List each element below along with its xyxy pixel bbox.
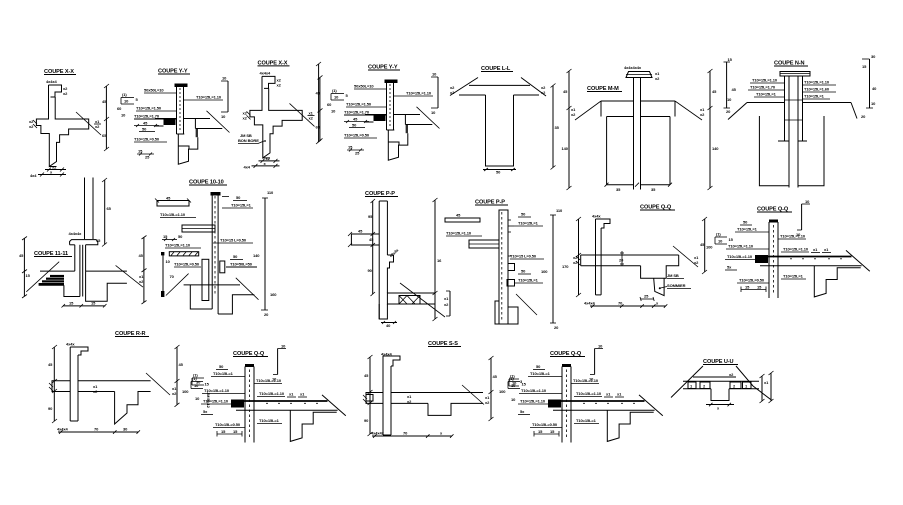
D2 left beam band: [155, 118, 177, 120]
D14 bottom bracket: [741, 289, 766, 291]
D13 leader diagonal: [673, 246, 698, 267]
D11 left slab: [351, 234, 379, 245]
D10 right vdim: [143, 237, 145, 302]
D6 body: [607, 116, 634, 118]
D15 slab: [78, 380, 151, 382]
section COUPE T-T (D18, copy): [499, 344, 663, 443]
svg-text:100: 100: [541, 269, 548, 274]
D6 cap: [626, 72, 652, 78]
D9 left vertical bracket: [162, 253, 164, 297]
D9 right tall dim: [264, 198, 266, 310]
D10 upper column: [84, 178, 86, 240]
D7 column stubs: [778, 140, 789, 142]
D13 thickness tick: [621, 251, 623, 266]
svg-text:T10=15L=1.10: T10=15L=1.10: [160, 212, 186, 217]
D6 right dim line: [709, 71, 711, 188]
D11 wall: [378, 201, 380, 319]
svg-text:T10=15L=1: T10=15L=1: [231, 203, 252, 208]
D17 left protrusion: [366, 393, 383, 404]
D9 leader diagonals: [166, 274, 189, 296]
D9 crossing beam: [182, 225, 215, 232]
D10 right foot: [86, 271, 127, 301]
D7 left bracket: [726, 62, 728, 108]
svg-text:T10=15L=1.10: T10=15L=1.10: [783, 247, 809, 252]
svg-text:T10=15L=0.50: T10=15L=0.50: [739, 278, 765, 283]
section COUPE K-K (D4, copy of D2): [327, 65, 440, 161]
section COUPE N-N (D7): [724, 54, 878, 188]
svg-text:T10=15L=1.10: T10=15L=1.10: [780, 234, 806, 239]
svg-text:T10=15L=1: T10=15L=1: [756, 92, 777, 97]
D9 left step: [190, 285, 212, 309]
D11 left vdim: [372, 201, 374, 294]
svg-text:4x4x4x: 4x4x4x: [371, 431, 385, 436]
D17 wall hook: [383, 356, 400, 366]
svg-text:50x50L=10: 50x50L=10: [144, 88, 164, 93]
D14 step: [814, 266, 860, 297]
D19 right bracket: [761, 376, 763, 401]
D1 tail bottom: [49, 166, 56, 168]
D7 right bracket: [869, 59, 871, 108]
section COUPE R-R (D15): [48, 331, 211, 434]
D6 bottom dim: [605, 183, 609, 187]
D10 leader diagonals: [26, 262, 59, 292]
D17 right vdim: [490, 358, 492, 419]
D7 cap: [780, 72, 810, 77]
svg-text:(1): (1): [716, 232, 721, 237]
section COUPE Y-Y (D2): [117, 69, 230, 165]
D13 step: [641, 255, 679, 278]
svg-text:T10=15L=1.60: T10=15L=1.60: [804, 87, 830, 92]
svg-text:T10=15L=1.10: T10=15L=1.10: [165, 243, 191, 248]
D5 flange underside: [459, 94, 486, 96]
D15 wall hook: [70, 347, 88, 355]
svg-text:T10=15 L=0.50: T10=15 L=0.50: [510, 254, 537, 259]
D13 left vdim: [578, 219, 580, 295]
D2 leader diagonal: [207, 111, 230, 133]
D9 column: [211, 192, 221, 196]
svg-text:110: 110: [556, 208, 563, 213]
svg-text:170: 170: [562, 264, 569, 269]
D12 leader diagonal: [516, 294, 537, 315]
D2 dim row E: [134, 125, 159, 127]
D12 right tall dim: [552, 215, 554, 323]
svg-text:4x4x4: 4x4x4: [46, 79, 57, 84]
D11 base: [387, 293, 435, 304]
svg-text:(1): (1): [122, 92, 127, 97]
section COUPE 10-10 (D9): [155, 180, 277, 318]
D9 right step: [218, 295, 254, 314]
D15 leader diagonal: [146, 373, 170, 395]
svg-text:(1): (1): [510, 374, 515, 379]
D19 boxes: [688, 382, 696, 389]
D10 left vdim: [23, 238, 25, 296]
svg-text:4x4x4: 4x4x4: [57, 427, 68, 432]
D12 notches: [508, 264, 515, 271]
D10 wall: [74, 245, 76, 271]
D10 bottom dim: [63, 305, 105, 307]
D9 top-right bracket: [222, 196, 229, 198]
D7 under-label lines: [747, 102, 785, 104]
section COUPE X-X (D1): [29, 69, 109, 178]
D19 trapezoid: [671, 366, 703, 398]
svg-text:T10=15L=1.10: T10=15L=1.10: [196, 95, 222, 100]
section COUPE Q-Q 2 (D14, reused for row3): [706, 199, 870, 298]
D2 foot outline: [178, 134, 198, 164]
D10 cap: [70, 240, 98, 245]
svg-text:T10=15 L=0.50: T10=15 L=0.50: [220, 238, 247, 243]
svg-text:T10=50L=50: T10=50L=50: [230, 262, 253, 267]
D11 leader diagonal: [400, 283, 445, 317]
D12 base: [495, 301, 518, 324]
D17 leader diagonal: [462, 385, 484, 405]
svg-text:4x4x: 4x4x: [592, 214, 601, 219]
section COUPE L-L (D5): [450, 66, 560, 175]
D15 right vdim: [176, 347, 178, 405]
D11 notch: [387, 255, 393, 293]
svg-text:T10=15L=1.10: T10=15L=1.10: [728, 244, 754, 249]
D9 right chair rect: [220, 261, 225, 273]
svg-text:T10=15L=1.10: T10=15L=1.10: [727, 254, 753, 259]
D15 wall: [69, 347, 71, 421]
D11 bottom left leg: [379, 304, 387, 319]
svg-text:4x4: 4x4: [30, 173, 37, 178]
svg-text:SOMMIER: SOMMIER: [667, 283, 686, 288]
D12 ticks on wall: [508, 219, 511, 221]
D15 slab notch: [115, 392, 151, 425]
D13 wall: [596, 219, 611, 228]
svg-text:100: 100: [706, 245, 713, 250]
D9 inner rebar rect: [202, 259, 209, 300]
svg-text:T10=15L=1.50: T10=15L=1.50: [136, 106, 162, 111]
svg-text:T10=15L=1.10: T10=15L=1.10: [752, 78, 778, 83]
svg-text:4x4x4x4x: 4x4x4x4x: [624, 65, 642, 70]
section COUPE U-U (D19): [671, 359, 774, 411]
svg-text:4x4x: 4x4x: [66, 342, 75, 347]
svg-text:T10=15L=1: T10=15L=1: [737, 227, 758, 232]
D14 column: [769, 220, 778, 223]
svg-text:140: 140: [562, 146, 569, 151]
D10 hatched slab: [50, 275, 64, 277]
section COUPE S-S (D17): [363, 341, 523, 438]
svg-text:4x4x4x: 4x4x4x: [69, 231, 83, 236]
svg-text:T10=15L=1.10: T10=15L=1.10: [804, 80, 830, 85]
D10 inner slot: [79, 245, 81, 297]
D9 left bar: [157, 201, 189, 207]
D19 band: [683, 380, 759, 382]
D17 left vdim: [369, 357, 371, 434]
section COUPE M-M (D6): [562, 65, 720, 192]
D17 wall: [382, 356, 384, 435]
D13 foot: [654, 278, 664, 295]
D10 upper right dim: [104, 180, 106, 245]
svg-text:T10=15L=1.70: T10=15L=1.70: [750, 85, 776, 90]
D5 top flange line: [469, 84, 530, 86]
svg-text:(1): (1): [193, 373, 198, 378]
D11 right vdim: [434, 200, 436, 319]
D17 slab: [391, 392, 483, 394]
D14 diagonal: [846, 250, 870, 271]
D6 left dim line: [568, 71, 570, 188]
D14 slab band: [759, 256, 852, 258]
svg-text:JM SB: JM SB: [667, 273, 679, 278]
section COUPE K-K (D3, copy of D1): [243, 60, 323, 169]
svg-text:BON BORE: BON BORE: [238, 138, 259, 143]
D12 top-left bar: [445, 218, 480, 222]
section COUPE S-S (D16, copy): [182, 344, 346, 443]
D11 bottom dim: [381, 322, 397, 324]
D9 flange cap: [169, 252, 198, 256]
svg-text:4x4x4: 4x4x4: [584, 301, 595, 306]
D1 leader diagonal: [76, 112, 101, 135]
D14 right bracket: [801, 204, 803, 230]
section COUPE P-P 2 (D12): [445, 200, 569, 331]
D5 left diagonal: [450, 78, 478, 96]
section COUPE P-P (D11): [348, 191, 450, 328]
D1 bottom dims: [45, 169, 66, 171]
D1 right dim line: [105, 86, 107, 149]
svg-text:JM BL12: JM BL12: [206, 392, 211, 409]
D2 top-right bracket: [227, 81, 229, 112]
D13 right vdim: [704, 219, 706, 272]
D1 wall+notch outline: [49, 85, 62, 97]
D12 wall: [499, 210, 508, 324]
D7 tub: [759, 116, 789, 186]
D19 right diagonal: [753, 386, 772, 401]
D6 column: [633, 78, 635, 190]
svg-text:T10=15L=0.50: T10=15L=0.50: [134, 137, 160, 142]
D17 slab notch: [428, 403, 483, 415]
D3 note JM SB BON BORE: [238, 133, 266, 144]
svg-text:T10=15L=1: T10=15L=1: [804, 94, 825, 99]
D19 stem: [711, 389, 729, 401]
D7 column: [784, 76, 786, 141]
D5 right dim line: [552, 85, 554, 167]
svg-text:T10=15L=0.50: T10=15L=0.50: [174, 262, 200, 267]
section COUPE 11-11 (D10): [19, 178, 147, 308]
D1 profile outline: [36, 85, 88, 167]
D13 slab top: [581, 254, 679, 256]
svg-text:T10=15L=1.10: T10=15L=1.10: [446, 231, 472, 236]
svg-text:110: 110: [267, 190, 274, 195]
D10 left foot: [64, 285, 80, 296]
D13 slab bottom: [581, 265, 641, 267]
D15 left vdim: [53, 347, 55, 421]
svg-text:160: 160: [270, 292, 277, 297]
D19 bottom dim: [706, 404, 734, 406]
D11 base hatch box: [399, 296, 420, 305]
svg-text:T10=15L=1: T10=15L=1: [783, 274, 804, 279]
D17 bottom dim: [372, 435, 452, 437]
D14 hatch box: [755, 255, 768, 263]
D15 left protrusion: [52, 381, 70, 392]
D2 column: [175, 84, 188, 88]
D6 shoulder diagonals: [575, 101, 601, 120]
D6 shoulder: [601, 100, 634, 102]
D5 right diagonal: [521, 78, 546, 97]
D15 bottom dim: [58, 431, 138, 433]
D5 stem: [486, 95, 514, 166]
D5 bottom dim: [483, 169, 516, 171]
D3 extra right dim line: [318, 64, 320, 142]
svg-text:T10=15L=1: T10=15L=1: [518, 221, 539, 226]
svg-text:140: 140: [712, 146, 719, 151]
D13 foot dim 25: [641, 298, 654, 300]
D11 right bracket: [449, 291, 451, 316]
D10 right slab top: [86, 270, 127, 272]
svg-text:T10=15L=1.70: T10=15L=1.70: [134, 114, 160, 119]
D10 left slab top: [40, 270, 75, 272]
section COUPE Q-Q (D13): [573, 205, 707, 308]
D7 diagonals: [728, 103, 747, 120]
D9 slab top line: [184, 284, 240, 286]
D2 right slab: [184, 118, 211, 120]
D12 crossing beam: [469, 240, 499, 248]
svg-text:140: 140: [253, 253, 260, 258]
svg-text:T10=15L=1: T10=15L=1: [518, 278, 539, 283]
D13 bottom dim: [590, 305, 666, 307]
